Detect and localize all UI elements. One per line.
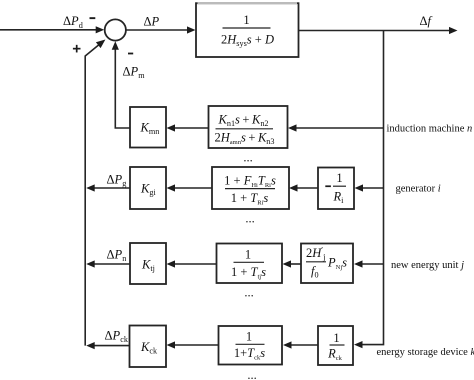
arrowhead into generator lag block bbox=[289, 184, 298, 191]
wire bus to -1/Ri block bbox=[361, 187, 384, 189]
arrowhead into Kck bbox=[167, 341, 176, 348]
block Kck bbox=[130, 326, 167, 368]
svg-text:...: ... bbox=[244, 286, 253, 300]
svg-text:induction machine n: induction machine n bbox=[387, 124, 473, 135]
arrowhead diagonal into summing junction bbox=[96, 40, 106, 49]
sign minus at ΔPd input bbox=[90, 17, 96, 19]
svg-text:1 + TRis: 1 + TRis bbox=[231, 191, 269, 207]
arrowhead into new energy inertia block bbox=[354, 260, 363, 267]
arrowhead Δf output bbox=[449, 27, 458, 34]
svg-text:...: ... bbox=[245, 212, 254, 226]
block row4 lag 1/(1+Ttj s) bbox=[217, 244, 283, 284]
wire left bus vertical with diagonal to summing junction bbox=[85, 44, 100, 346]
arrowhead into -1/Ri bbox=[355, 184, 364, 191]
arrowhead into main block bbox=[187, 26, 196, 33]
block Ktj bbox=[130, 243, 166, 284]
svg-text:new energy unit j: new energy unit j bbox=[391, 260, 464, 271]
svg-text:1 + Ttjs: 1 + Ttjs bbox=[231, 265, 266, 281]
arrowhead into Kgi bbox=[167, 184, 176, 191]
wire bus to induction machine block bbox=[295, 127, 384, 129]
arrowhead into Ktj bbox=[167, 260, 176, 267]
block 1/Rck bbox=[318, 326, 353, 365]
svg-text:1: 1 bbox=[333, 331, 339, 345]
block new energy inertia (2H'j/f0)PNj s bbox=[301, 244, 353, 284]
wire input bbox=[0, 29, 96, 31]
block generator lag (1+FHi TRi s)/(1+TRi s) bbox=[212, 167, 289, 209]
svg-text:1: 1 bbox=[246, 330, 252, 344]
arrowhead Ktj output into bus bbox=[86, 260, 95, 267]
svg-text:energy storage device k: energy storage device k bbox=[377, 347, 474, 358]
svg-text:Δf: Δf bbox=[420, 14, 433, 28]
svg-text:2H′j: 2H′j bbox=[306, 246, 325, 262]
svg-text:...: ... bbox=[247, 368, 256, 380]
wire Kck to left bus bbox=[93, 345, 130, 347]
arrowhead into row4 lag block bbox=[283, 260, 292, 267]
block row5 lag 1/(1+Tck s) bbox=[219, 326, 283, 365]
svg-text:1: 1 bbox=[245, 248, 251, 262]
block induction machine (Kn1 s+Kn2)/(2Hamn s+Kn3) bbox=[209, 106, 288, 148]
svg-text:...: ... bbox=[243, 151, 252, 165]
wire main block output to Δf bbox=[299, 30, 450, 32]
wire bus to 1/Rck block bbox=[290, 344, 318, 346]
wire Ktj to left bus bbox=[93, 263, 130, 265]
wire Kmn to summing junction bbox=[115, 46, 130, 128]
svg-text:2Hsyss + D: 2Hsyss + D bbox=[221, 33, 274, 49]
arrowhead input to summing junction bbox=[96, 26, 105, 33]
wire feedback bus vertical bbox=[362, 31, 384, 345]
arrowhead into induction machine block bbox=[288, 124, 297, 131]
wire Kgi to left bus bbox=[93, 187, 130, 189]
sign minus at ΔPm input bbox=[128, 53, 133, 55]
block -1/Ri bbox=[318, 168, 354, 210]
wire summing junction to main block bbox=[126, 29, 190, 31]
wire bus to new energy inertia block bbox=[361, 263, 384, 265]
block Kmn bbox=[130, 107, 166, 148]
block Kgi bbox=[130, 167, 166, 209]
svg-text:generator i: generator i bbox=[396, 184, 441, 195]
wire generator lag block to Kgi bbox=[173, 187, 212, 189]
arrowhead up into summing junction bbox=[112, 41, 119, 50]
arrowhead into Kmn bbox=[167, 124, 176, 131]
wire induction block to Kmn bbox=[173, 127, 209, 129]
arrowhead Kck output into bus bbox=[86, 342, 95, 349]
arrowhead into row5 lag block bbox=[283, 341, 292, 348]
wire lag block to Ktj bbox=[173, 263, 217, 265]
arrowhead into 1/Rck bbox=[354, 341, 363, 348]
wire inertia block to lag block row4 bbox=[289, 263, 301, 265]
svg-text:1+Tcks: 1+Tcks bbox=[234, 346, 265, 362]
sign plus at left bus input bbox=[73, 45, 81, 53]
svg-text:ΔP: ΔP bbox=[144, 15, 160, 29]
svg-text:1: 1 bbox=[243, 13, 249, 27]
arrowhead Kgi output into bus bbox=[86, 184, 95, 191]
wire storage lag block to Kck bbox=[173, 344, 219, 346]
summing junction bbox=[105, 19, 126, 40]
svg-text:1: 1 bbox=[336, 171, 342, 185]
wire -1/Ri to generator lag block bbox=[296, 187, 318, 189]
main block 1/(2Hsys s+D) bbox=[196, 3, 299, 57]
svg-text:2Hamns + Kn3: 2Hamns + Kn3 bbox=[215, 131, 275, 147]
